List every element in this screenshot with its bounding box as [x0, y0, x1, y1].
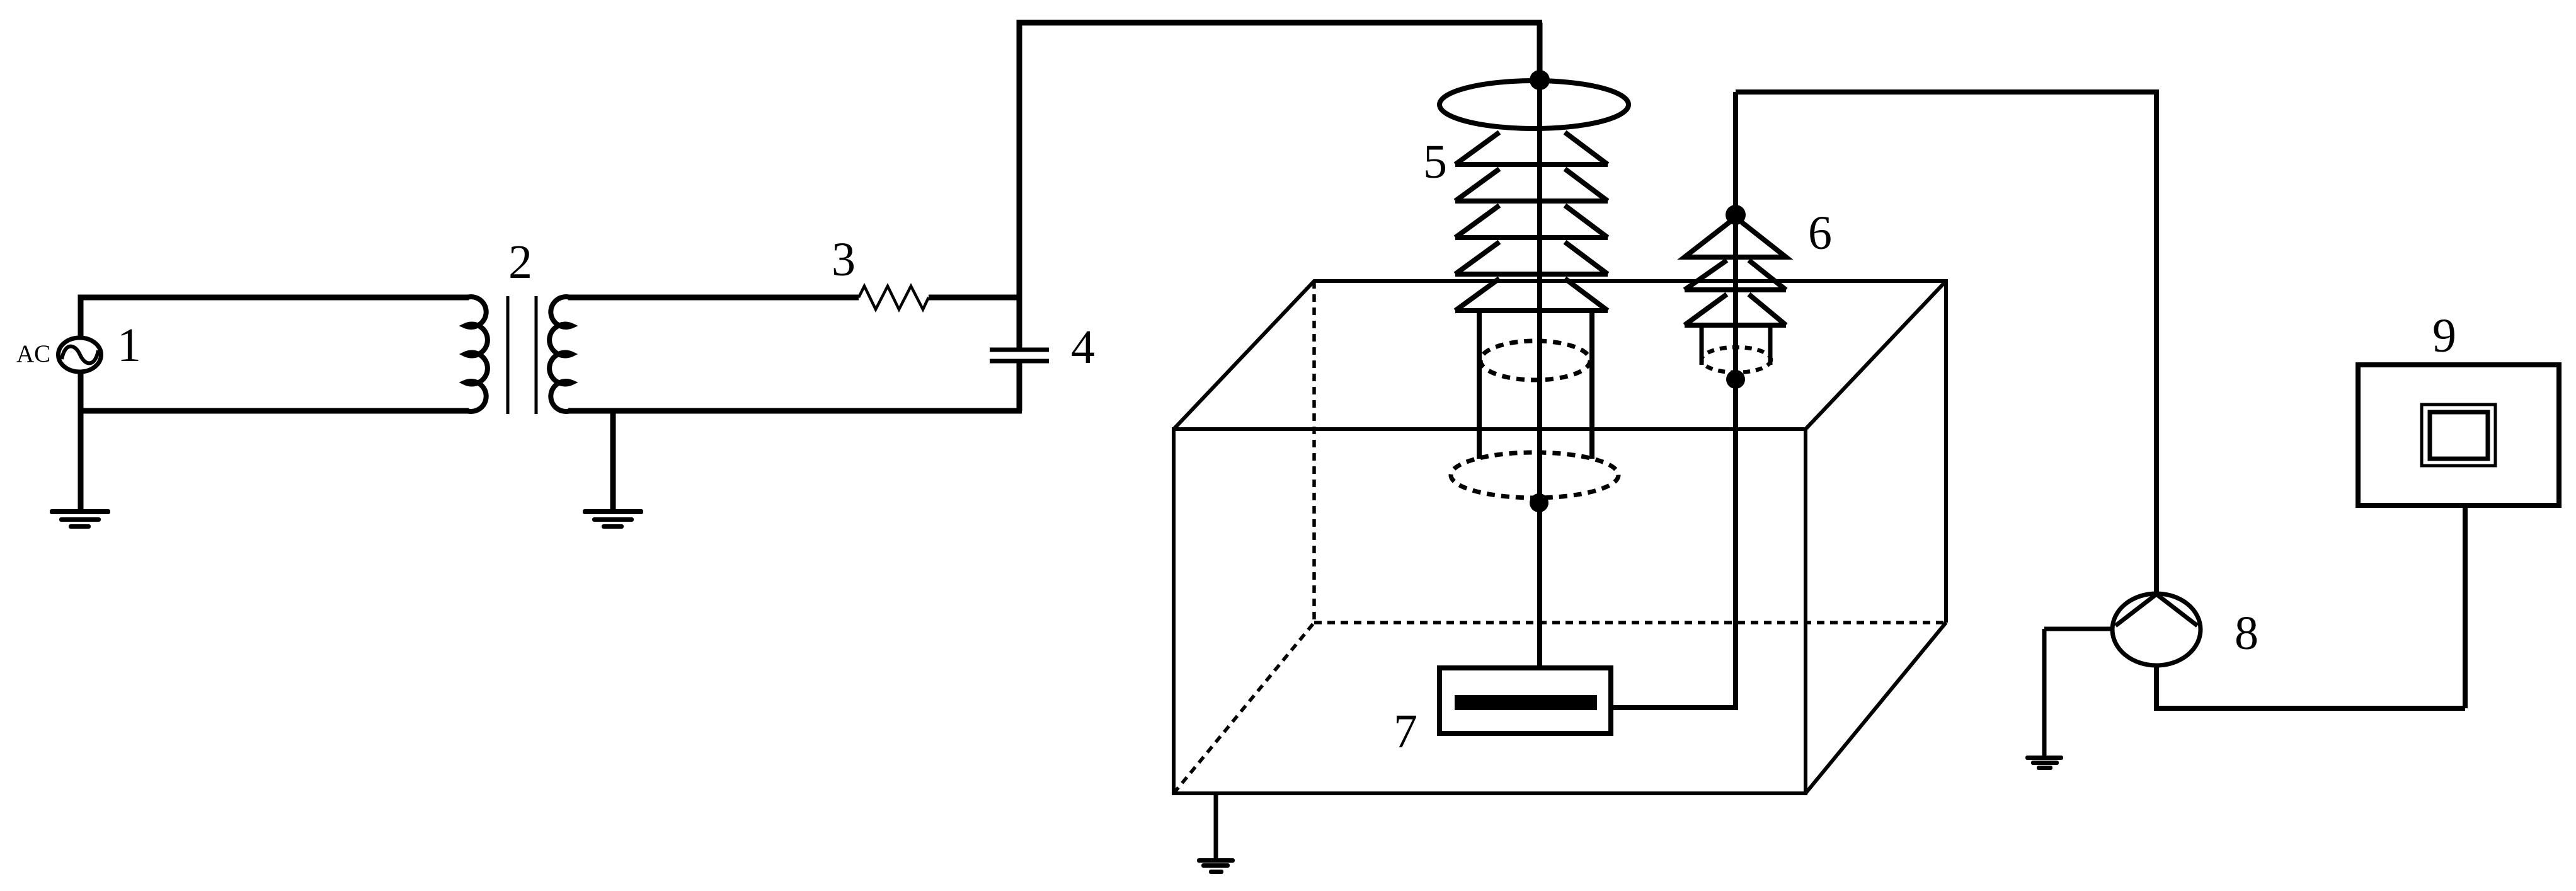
node dot bottom electrode of insulator 5	[1530, 493, 1548, 512]
wire box7 to insulator 6 drop	[1611, 705, 1738, 710]
ground (ac source)	[50, 509, 110, 529]
insulator 5 center rod	[1537, 80, 1542, 668]
transformer 2 primary winding	[449, 297, 488, 411]
wire bottom-left horizontal	[78, 408, 469, 414]
svg-text:8: 8	[2235, 607, 2258, 660]
node dot top of insulator 6	[1726, 205, 1746, 225]
wire ground stub x973	[610, 411, 616, 509]
insulator 5 lower dashed ellipse	[1451, 452, 1618, 498]
wire pump bottom L	[2154, 505, 2465, 708]
wire pump left	[2044, 629, 2112, 756]
capacitor 4	[990, 297, 1049, 411]
insulator 5 upper dashed ellipse	[1480, 341, 1590, 380]
ac source 1	[59, 338, 101, 372]
insulator 6 dashed ellipse	[1702, 347, 1771, 372]
insulator 5 skirt 5	[1455, 279, 1608, 311]
wire top-left horizontal	[78, 295, 469, 301]
tank solid edges	[1174, 281, 1946, 793]
insulator 5 top electrode ellipse	[1440, 81, 1629, 129]
wire drop to insulator 5	[1537, 23, 1543, 80]
pump 8	[2112, 594, 2201, 665]
insulator 5 skirt 4	[1455, 242, 1608, 274]
ground (pump)	[2025, 756, 2063, 770]
insulator 6 flange cylinder	[1702, 325, 1770, 365]
node dot top of insulator 5	[1530, 70, 1550, 90]
svg-text:2: 2	[508, 236, 532, 289]
transformer 2 secondary winding	[549, 297, 588, 411]
wire secondary top	[568, 295, 859, 301]
wire top bus y36	[1017, 20, 1543, 26]
svg-text:1: 1	[117, 319, 141, 372]
insulator 6 skirt 2	[1685, 260, 1786, 290]
ground (tank)	[1197, 858, 1235, 874]
wire resistor to corner	[929, 295, 1022, 301]
insulator 5 skirt 2	[1455, 169, 1608, 201]
box 7	[1440, 668, 1611, 733]
svg-text:3: 3	[832, 233, 856, 286]
wire riser x1618	[1017, 23, 1022, 300]
wire secondary bottom	[568, 408, 1022, 414]
svg-text:AC: AC	[16, 340, 50, 367]
insulator 5 flange cylinder	[1479, 311, 1592, 459]
svg-text:6: 6	[1808, 207, 1832, 260]
insulator 6 skirt 3	[1685, 294, 1786, 325]
tank hidden edges (dashed)	[1174, 281, 1946, 793]
resistor 3	[859, 286, 929, 309]
svg-text:7: 7	[1394, 705, 1417, 758]
box 9	[2358, 365, 2559, 505]
node dot bottom of insulator 6	[1726, 370, 1745, 389]
insulator 5 skirt 1	[1455, 132, 1608, 164]
wire tank ground stub	[1214, 795, 1218, 858]
insulator 6 rod	[1733, 92, 1738, 708]
svg-text:9: 9	[2432, 309, 2456, 362]
ground (transformer)	[583, 509, 643, 529]
svg-text:4: 4	[1071, 321, 1095, 374]
wire top-right y146	[1736, 89, 2159, 95]
insulator 5 skirt 3	[1455, 205, 1608, 238]
wire ac vertical	[78, 297, 84, 509]
wire pump riser x3423	[2154, 92, 2159, 594]
transformer 2 core	[508, 296, 536, 414]
svg-text:5: 5	[1423, 135, 1447, 188]
insulator 6 skirt 1	[1685, 217, 1786, 257]
